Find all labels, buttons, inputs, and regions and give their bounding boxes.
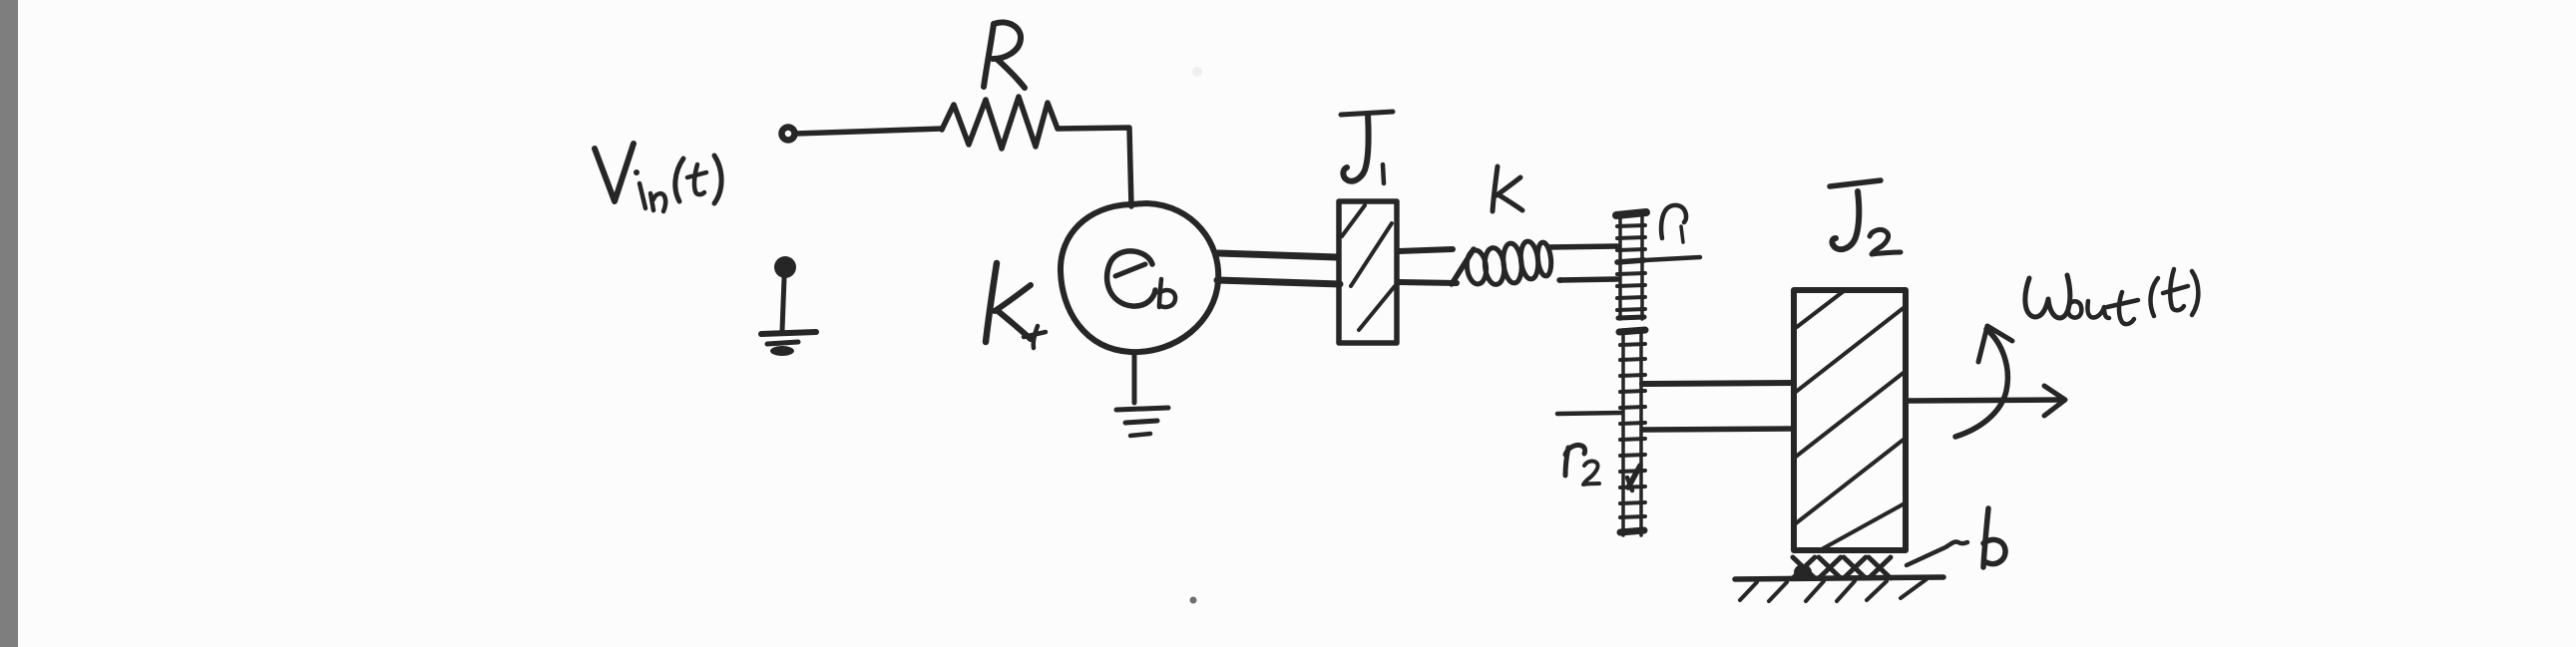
shaft J1 to spring: [1399, 249, 1457, 283]
label R: [984, 22, 1025, 88]
label J1: [1341, 112, 1393, 183]
ground input side: [761, 256, 816, 356]
gear r1: [1616, 212, 1646, 319]
node Vin input terminal: [782, 128, 795, 141]
leader line to b: [1907, 541, 1967, 565]
rotation arrow omega out: [1955, 326, 2012, 437]
label J2: [1830, 180, 1901, 254]
resistor R: [942, 97, 1058, 149]
output shaft arrow: [1908, 386, 2065, 416]
damper b contact x marks: [1793, 557, 1891, 580]
radius line r1: [1645, 257, 1700, 260]
wire input to resistor: [795, 129, 942, 134]
ground surface under damper: [1735, 577, 1943, 601]
shaft r2 to J2: [1642, 383, 1794, 430]
torsional spring k: [1452, 240, 1552, 285]
label kt: [986, 263, 1046, 348]
label omega out (t): [2025, 269, 2198, 324]
motor armature eb: [1061, 203, 1218, 352]
label Vin(t): [595, 144, 721, 211]
label r2: [1565, 445, 1599, 485]
ground motor side: [1116, 408, 1168, 436]
wire motor to ground: [1132, 352, 1137, 403]
inertia J1: [1339, 201, 1397, 343]
label eb: [1107, 251, 1176, 307]
inertia J2: [1794, 290, 1906, 550]
shaft spring to gear r1: [1548, 246, 1617, 283]
label k: [1493, 166, 1522, 211]
label r1: [1661, 205, 1686, 242]
gear r2: [1619, 330, 1645, 535]
wire resistor to motor: [1058, 128, 1131, 206]
shaft line left of r2: [1557, 413, 1622, 414]
shaft motor to J1: [1217, 253, 1340, 284]
label b: [1983, 508, 2005, 567]
